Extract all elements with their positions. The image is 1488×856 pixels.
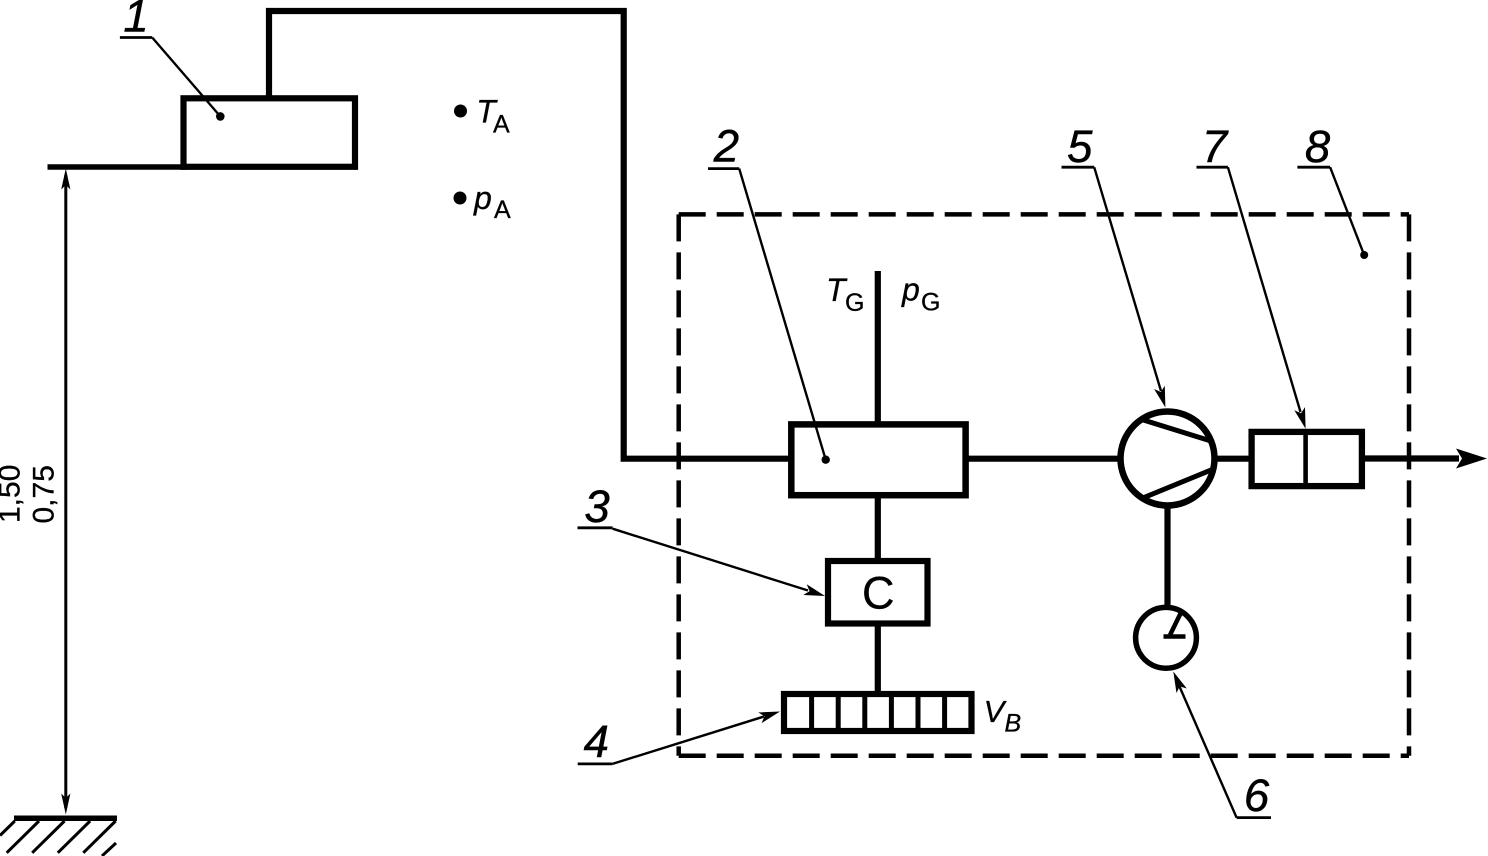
- component 1 (instrument box): [184, 98, 356, 167]
- svg-text:7: 7: [1202, 121, 1229, 172]
- gauge 6 (meter with needle): [1136, 607, 1197, 668]
- svg-text:G: G: [845, 289, 864, 317]
- label 5 with arrow leader: [1062, 121, 1166, 407]
- svg-text:2: 2: [713, 120, 739, 171]
- svg-text:p: p: [473, 180, 492, 216]
- svg-text:G: G: [921, 289, 940, 317]
- label 6 with arrow leader: [1173, 672, 1271, 822]
- enclosure 8 (dashed box): [679, 214, 1409, 755]
- wire pump 5 to gauge 6: [1164, 505, 1170, 608]
- label 3 with arrow leader: [578, 481, 826, 596]
- component 2 (conditioning box): [791, 424, 965, 495]
- label 7 with arrow leader: [1197, 121, 1306, 429]
- ground hatching: [0, 821, 116, 856]
- dimension line with arrows: [61, 169, 70, 815]
- svg-text:1: 1: [123, 0, 148, 42]
- shelf line under component 1: [48, 164, 188, 170]
- svg-text:3: 3: [584, 481, 609, 532]
- svg-text:5: 5: [1067, 121, 1093, 172]
- label VB: [984, 694, 1022, 738]
- probe line TG pG: [826, 271, 940, 424]
- svg-text:A: A: [494, 196, 511, 224]
- label 2 with leader and dot: [708, 120, 830, 464]
- node TA: [454, 94, 510, 139]
- component 3 (box C): [828, 561, 928, 624]
- component 7 (two-cell box): [1252, 432, 1362, 486]
- svg-text:1,50: 1,50: [0, 465, 27, 523]
- wire pump 5 to component 7: [1216, 456, 1251, 462]
- pump 5: [1121, 412, 1215, 506]
- wire component 2 to pump 5: [966, 456, 1121, 462]
- svg-text:0,75: 0,75: [28, 465, 61, 523]
- wire from component 1 top to component 2: [269, 11, 789, 459]
- wire component 3 to component 4: [875, 624, 881, 695]
- component 4 (segmented battery box): [784, 694, 972, 731]
- node pA: [454, 180, 512, 224]
- svg-text:6: 6: [1244, 770, 1270, 821]
- label 1 with leader and dot: [120, 0, 225, 121]
- svg-text:B: B: [1005, 710, 1022, 738]
- outlet arrow: [1363, 449, 1487, 469]
- svg-text:A: A: [493, 111, 510, 139]
- label 8 with leader and dot: [1297, 121, 1368, 259]
- svg-text:4: 4: [584, 716, 609, 767]
- svg-text:p: p: [901, 272, 920, 308]
- wire component 2 to component 3: [875, 495, 881, 561]
- ground line: [14, 816, 117, 822]
- svg-text:C: C: [862, 568, 895, 619]
- label 4 with arrow leader: [578, 712, 780, 767]
- svg-text:8: 8: [1305, 121, 1331, 172]
